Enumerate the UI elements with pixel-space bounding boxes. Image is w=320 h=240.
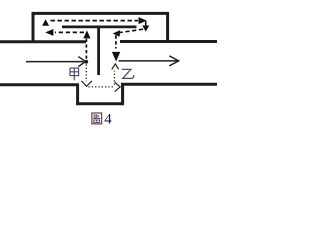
node ceiling right arrowhead	[139, 17, 147, 24]
wire: left top duct wall (shelf)	[0, 40, 86, 43]
wire: inflow arrow shaft	[26, 61, 84, 63]
wire: dashed return along plate underside to left	[55, 31, 84, 33]
wire: dotted up flow right of stem	[114, 71, 116, 85]
node label jia	[70, 68, 79, 80]
wire: dashed descent through yi opening	[115, 35, 117, 48]
wire: solid elbow down	[145, 21, 147, 26]
node H2: baffle plate over slot	[62, 26, 137, 29]
wire: bottom left duct wall	[0, 83, 79, 86]
wire: dashed riser at jia opening	[85, 39, 87, 59]
node V1: baffle stem wall	[97, 27, 100, 75]
wire: dashed ceiling line	[51, 20, 139, 22]
node yi descent big down arrowhead	[112, 52, 120, 62]
wire: dotted flow along notch	[89, 86, 115, 88]
node dotted up open arrowhead	[112, 64, 119, 69]
wire: right top duct wall (shelf)	[120, 40, 217, 43]
wire: bottom right duct wall	[121, 83, 217, 86]
wire: dotted down flow left of stem	[85, 64, 87, 81]
node yi-return left arrowhead	[113, 30, 121, 37]
node riser up arrowhead	[83, 30, 90, 38]
node notch: bottom cavity	[78, 85, 123, 104]
node left arrowhead of return	[45, 29, 53, 36]
wire: outflow arrow shaft	[119, 60, 178, 62]
node dotted down open arrowhead	[81, 81, 92, 86]
wire: dashed return above yi opening	[120, 29, 144, 32]
svg-text:4: 4	[104, 111, 112, 127]
node label yi	[122, 69, 134, 78]
node dotted right open arrowhead	[115, 82, 121, 91]
node inflow arrowhead	[78, 57, 85, 67]
node junction dot	[84, 60, 88, 64]
node loop left up arrowhead	[42, 19, 49, 26]
node elbow down arrowhead	[142, 26, 149, 32]
node outflow arrowhead	[169, 56, 178, 66]
node chamber: top box outline	[33, 13, 168, 41]
node caption glyph tu	[92, 113, 102, 124]
